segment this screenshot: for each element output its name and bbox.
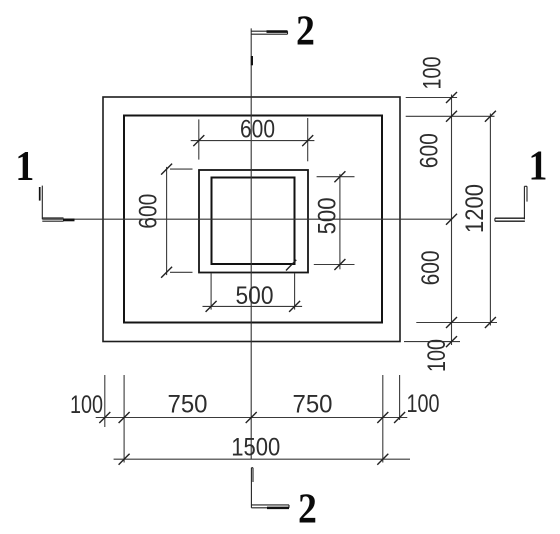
tick 1500 right [377, 454, 388, 465]
tick 1200 top [485, 111, 496, 122]
svg-text:600: 600 [417, 250, 445, 285]
svg-text:500: 500 [236, 282, 274, 310]
svg-text:2: 2 [298, 485, 317, 532]
dimension left 600 dim line [166, 167, 168, 275]
svg-text:600: 600 [240, 115, 275, 143]
section flag 1 right: bar left cap [494, 218, 496, 221]
bottom chain dim line [96, 417, 408, 419]
footing step rectangle [124, 116, 382, 323]
section flag 2 bottom: bar bottom line [251, 507, 289, 509]
section flag 2 bottom: thick horizontal dash [267, 507, 289, 510]
tick right chain c [446, 317, 457, 328]
tick right500 top [334, 171, 345, 182]
bottom overall 1500 dim line [114, 458, 410, 460]
section flag 1 right: vertical hollow second line [526, 186, 528, 201]
tick right chain a [446, 92, 457, 103]
svg-text:750: 750 [168, 391, 208, 419]
dimension bottom 500 left extension [210, 273, 212, 309]
section flag 2 top: thick horizontal dash [267, 30, 288, 33]
dimension right 500 dim line [339, 174, 341, 269]
section flag 2 bottom: vertical line [250, 468, 252, 508]
tick left600 bottom [161, 267, 172, 278]
dimension right 500 bottom extension [314, 264, 355, 266]
tick right chain center [446, 214, 457, 225]
right chain extension d [404, 341, 460, 343]
dimension top 600 dim line [191, 140, 315, 142]
section flag 1 left: bar bottom line [42, 220, 63, 222]
tick chain b [119, 412, 130, 423]
svg-text:100: 100 [423, 339, 451, 372]
right chain extension b [406, 115, 495, 117]
svg-text:600: 600 [134, 194, 162, 229]
section flag 1 right: vertical line [523, 186, 525, 219]
dimension left 600 top extension [170, 168, 193, 170]
svg-text:100: 100 [407, 390, 440, 418]
tick top600 left [193, 135, 204, 146]
tick left600 top [161, 164, 172, 175]
section flag 2 top: bar bottom line [251, 33, 287, 35]
right chain extension c [416, 322, 497, 324]
dimension top 600 right extension [307, 118, 309, 161]
section flag 2 bottom: vertical top cap [251, 467, 253, 469]
vertical centerline [250, 28, 252, 459]
section flag 1 left: vertical line [41, 186, 43, 220]
tick chain center [246, 412, 257, 423]
right chain dim line [451, 95, 453, 346]
svg-text:750: 750 [293, 391, 333, 419]
bottom chain extension b [123, 375, 125, 463]
tick chain c [377, 412, 388, 423]
tick right chain d [446, 336, 457, 347]
section flag 2 bottom: bar top line [251, 504, 289, 506]
dimension bottom 500 dim line [203, 305, 303, 307]
section flag 1 right: bar bottom line [495, 220, 525, 222]
tick 1500 left [119, 454, 130, 465]
right chain extension a [406, 97, 457, 99]
dimension left 600 bottom extension [170, 271, 193, 273]
section flag 2 bottom: bar end cap [288, 505, 290, 508]
bottom chain extension a [104, 375, 106, 427]
tick top600 right [302, 135, 313, 146]
dimension right 500 top extension [317, 176, 355, 178]
section flag 2 bottom: vertical hollow second line [252, 468, 254, 482]
svg-text:1200: 1200 [461, 184, 489, 233]
section flag 2 top: bar end cap [287, 31, 289, 34]
svg-text:1: 1 [529, 142, 548, 189]
svg-text:1500: 1500 [231, 434, 280, 462]
svg-text:500: 500 [314, 197, 342, 234]
tick 1200 bottom [485, 317, 496, 328]
tick chain a [99, 412, 110, 423]
bottom chain extension c [382, 375, 384, 463]
tick bottom500 left [206, 301, 217, 312]
dimension bottom 500 right extension [294, 273, 296, 309]
dimension top 600 left extension [198, 119, 200, 159]
pedestal outer rectangle [199, 170, 308, 273]
svg-text:1: 1 [15, 142, 34, 189]
right overall 1200 dim line [489, 114, 491, 326]
column inner rectangle [212, 178, 295, 265]
tick chain d [394, 412, 405, 423]
corner slash at column corner [286, 260, 296, 271]
section flag 1 right: bar top line [495, 217, 525, 219]
svg-text:600: 600 [416, 133, 444, 168]
horizontal centerline [42, 218, 451, 220]
bottom chain extension d [399, 375, 401, 420]
tick bottom500 right [289, 301, 300, 312]
section flag 2 top: bar top line [251, 30, 287, 32]
section flag 2 top: thick vertical dash [251, 56, 253, 65]
section flag 1 left: thick vertical dash [39, 187, 41, 201]
tick right chain b [446, 111, 457, 122]
section flag 1 left: thick horizontal dash [63, 218, 75, 221]
svg-text:100: 100 [70, 391, 103, 419]
tick right500 bottom [334, 259, 345, 270]
outer footing edge rectangle [103, 97, 400, 342]
section flag 1 right: vertical top cap [524, 185, 527, 187]
svg-text:100: 100 [419, 57, 447, 90]
section flag 1 left: bar top line [42, 217, 63, 219]
svg-text:2: 2 [296, 6, 315, 53]
